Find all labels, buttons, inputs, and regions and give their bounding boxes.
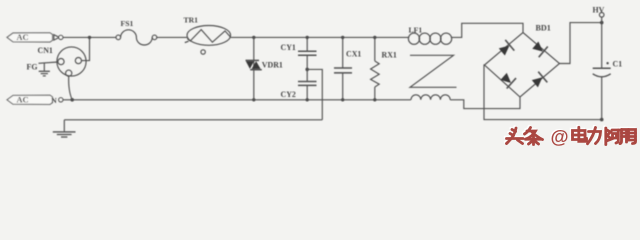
- svg-text:FG: FG: [27, 62, 38, 71]
- node junction RX1 top: [373, 36, 376, 39]
- svg-text:CY2: CY2: [281, 90, 296, 99]
- capacitor CX1: [334, 37, 361, 99]
- svg-text:RX1: RX1: [382, 51, 397, 60]
- svg-text:FS1: FS1: [121, 19, 134, 28]
- node junction VDR1 bottom: [252, 98, 255, 101]
- resistor RX1: [371, 37, 397, 99]
- inductor LF1 bottom winding: [411, 95, 450, 100]
- diode D-upper-left: [497, 40, 514, 57]
- wire DC plus to HV: [560, 23, 602, 64]
- rectifier BD1 bridge: [485, 24, 560, 97]
- wire VDR1 branch: [253, 37, 255, 99]
- thermistor TR1: [184, 15, 231, 54]
- node AC N input flag: [7, 95, 53, 104]
- svg-text:HV: HV: [593, 5, 605, 14]
- wire LF1 core Z: [410, 55, 457, 87]
- svg-text:AC: AC: [17, 96, 29, 105]
- svg-text:CN1: CN1: [38, 46, 53, 55]
- svg-text:AC: AC: [17, 33, 29, 42]
- wire TR1 to filter section: [231, 36, 409, 38]
- svg-text:C1: C1: [613, 59, 623, 68]
- capacitor C1: [593, 59, 622, 77]
- fuse FS1: [116, 19, 157, 45]
- node junction rail corner: [600, 118, 604, 122]
- capacitor CY2: [281, 69, 317, 99]
- node junction RX1 bottom: [373, 98, 376, 101]
- wire L line from plug to fuse: [63, 36, 116, 38]
- wire FG to CN1 left pin: [39, 62, 58, 63]
- svg-text:BD1: BD1: [536, 24, 551, 33]
- node junction CY1 top: [306, 36, 309, 39]
- varistor VDR1: [246, 60, 283, 69]
- wire L line jog up to bridge: [452, 23, 523, 37]
- svg-text:CX1: CX1: [346, 50, 361, 59]
- diode D-upper-right: [531, 40, 548, 57]
- connector CN1: [38, 46, 87, 76]
- node junction VDR1 top: [252, 36, 255, 39]
- wire earth line: [64, 119, 322, 121]
- svg-text:TR1: TR1: [184, 15, 199, 24]
- svg-text:CY1: CY1: [281, 43, 296, 52]
- ground FG earth symbol: [39, 63, 50, 76]
- svg-text:N: N: [51, 96, 57, 105]
- wire CN1 right pin to L line: [82, 37, 90, 60]
- pin L connector symbol: [54, 35, 63, 40]
- wire N line jog down to bridge: [450, 97, 520, 109]
- wire C1 to rail: [601, 77, 603, 120]
- diode D-lower-right: [530, 72, 547, 89]
- ground main earth: [53, 120, 76, 137]
- node junction CY midpoint: [305, 68, 309, 72]
- node junction CX1 bottom: [341, 98, 344, 101]
- wire HV rail down to C1: [601, 23, 603, 68]
- diode D-lower-left: [499, 71, 516, 88]
- node HV terminal: [593, 5, 605, 22]
- capacitor CY1: [281, 37, 317, 69]
- node junction CY2 bottom: [306, 98, 309, 101]
- wire DC minus rail: [484, 65, 602, 120]
- pin N connector symbol: [51, 96, 63, 105]
- svg-text:@: @: [551, 126, 569, 147]
- node junction N at CN1: [70, 98, 74, 102]
- wire CY midpoint to earth line: [307, 69, 322, 119]
- wire N line: [63, 99, 411, 101]
- wire fuse to TR1: [157, 36, 187, 38]
- svg-text:VDR1: VDR1: [262, 60, 283, 69]
- node junction HV: [600, 21, 604, 25]
- node junction CX1 top: [341, 36, 344, 39]
- wire CN1 bottom pin to N line: [69, 76, 73, 100]
- inductor LF1 common mode choke: [408, 25, 451, 44]
- node AC L input flag: [7, 33, 53, 42]
- node junction L to CN1: [88, 36, 91, 39]
